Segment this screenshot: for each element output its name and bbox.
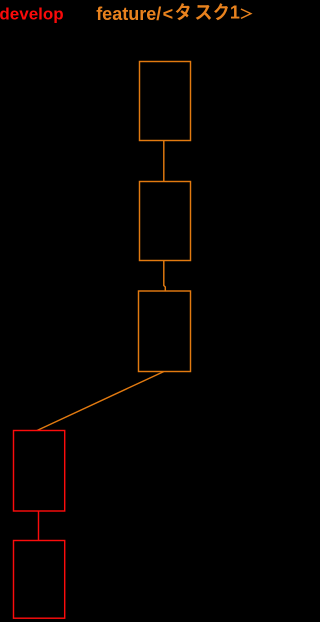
commit box F3 <box>139 291 191 372</box>
kana su <box>196 5 211 20</box>
wire F1-F2 <box>163 141 165 182</box>
wire F3-D1 merge diagonal <box>37 372 164 431</box>
node feature-label <box>96 3 252 24</box>
svg-text:<: < <box>163 4 174 24</box>
svg-text:feature/: feature/ <box>96 4 161 24</box>
kana ta <box>176 3 190 20</box>
svg-text:1: 1 <box>230 3 240 23</box>
commit box D2 <box>14 541 65 619</box>
kana ku <box>214 3 228 20</box>
commit box F2 <box>140 182 191 261</box>
wire F2-F3 <box>164 261 166 292</box>
commit box F1 <box>140 62 191 141</box>
wire D1-D2 <box>38 511 40 541</box>
svg-text:develop: develop <box>0 5 64 24</box>
commit box D1 <box>14 431 65 512</box>
fullwidth gt <box>241 8 253 19</box>
